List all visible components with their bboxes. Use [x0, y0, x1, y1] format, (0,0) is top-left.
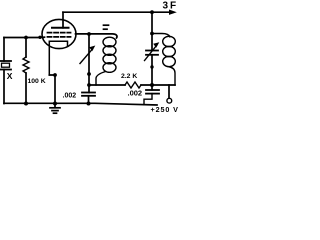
svg-text:.002: .002 [63, 93, 77, 100]
svg-text:3F: 3F [163, 1, 179, 12]
svg-text:2.2 K: 2.2 K [121, 73, 137, 80]
svg-text:+250 V: +250 V [151, 105, 179, 114]
svg-text:.002: .002 [128, 89, 143, 98]
svg-text:X: X [7, 71, 13, 81]
svg-text:100 K: 100 K [28, 78, 46, 85]
